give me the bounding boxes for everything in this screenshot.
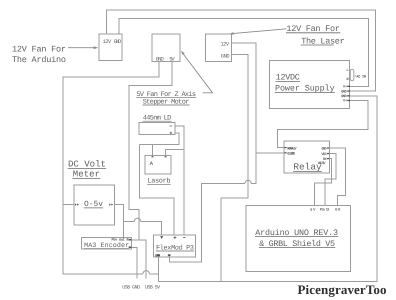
component label texts — [12, 24, 345, 65]
svg-text:Pin 12: Pin 12 — [320, 208, 330, 213]
leader arrow to fan3 (laser fan) — [234, 29, 286, 34]
svg-text:The Arduino: The Arduino — [12, 55, 66, 65]
laserb top pin nubs — [152, 156, 154, 157]
svg-text:GND: GND — [156, 56, 164, 62]
relay K1 box — [284, 141, 329, 173]
laser module Laserb box — [145, 156, 171, 175]
svg-text:GND: GND — [341, 89, 347, 94]
wire relay pin GND staircase to arduino D8 — [329, 148, 345, 205]
svg-text:L: L — [347, 68, 349, 73]
svg-text:A: A — [150, 160, 154, 167]
LD +- pin marks — [170, 126, 172, 134]
svg-text:VCC: VCC — [322, 152, 327, 157]
label 12VDC Power Supply — [275, 73, 335, 94]
svg-text:12V: 12V — [221, 41, 230, 47]
MA3 right edge pin nubs — [129, 239, 132, 241]
wire net fan2 GND to voltmeter left and bus2 (hop at 146) — [63, 62, 159, 274]
wire MA3 PWM pin to USB GND stub — [132, 247, 137, 278]
svg-text:CLOSED: CLOSED — [287, 151, 295, 156]
wire MA3 5V line to USB 5V stub — [132, 240, 146, 279]
label 5V Fan For Z Axis Stepper Motor — [136, 91, 196, 106]
wire hop arc over jog vertical — [134, 218, 140, 221]
power supply U1 box — [269, 60, 349, 108]
voltmeter 0-5v box — [74, 185, 114, 225]
svg-text:N: N — [347, 77, 349, 82]
label Arduino UNO REV.3 & GRBL Shield V5 — [255, 228, 338, 249]
svg-text:GND: GND — [114, 39, 121, 45]
wire net fan3 12V to relay/FlexMod M (with hop at 248) — [170, 43, 256, 262]
flexmod pin1 mark — [160, 236, 163, 239]
svg-text:NORMALLY: NORMALLY — [287, 147, 297, 152]
label USB GND / USB 5V — [122, 285, 160, 291]
voltmeter pin chevrons — [75, 203, 79, 205]
wire relay pin VCC staircase to arduino Pin12 — [325, 154, 336, 206]
relay right pin nubs — [327, 147, 329, 148]
svg-text:P5v out B: P5v out B — [112, 238, 129, 243]
arduino uno box — [246, 205, 351, 271]
svg-text:VCC 5V: VCC 5V — [318, 161, 326, 166]
laser diode LD box 445nm — [139, 122, 175, 134]
svg-text:5V: 5V — [169, 56, 175, 62]
svg-text:V+: V+ — [343, 99, 347, 104]
svg-text:D8: D8 — [335, 208, 340, 213]
wire net PSU pin3 GND bus right side and bottom bus1 — [158, 96, 376, 281]
wire voltmeter left pin tap — [63, 204, 74, 206]
PSU AC IN bracket — [350, 69, 356, 80]
psu pin nubs — [347, 86, 350, 87]
flexmod +- pin marks — [174, 236, 186, 239]
svg-text:5V: 5V — [310, 208, 316, 213]
wire net LD minus to Laserb right pin and FlexMod pin3 — [166, 126, 184, 235]
label DC Volt Meter — [68, 160, 106, 180]
svg-text:12V Fan For: 12V Fan For — [12, 44, 66, 54]
svg-text:PicengraverToo: PicengraverToo — [298, 282, 387, 297]
svg-text:GND: GND — [341, 94, 347, 99]
leader arrow to fan1 — [68, 29, 286, 93]
pin nubs — [75, 86, 350, 256]
wire voltmeter out to MA3 top pin and FlexMod pin1 (hop gap at 137.5) — [114, 205, 161, 238]
wire net 12V fan1 to PSU pin2 (outer top) — [107, 10, 376, 91]
svg-text:USB GND: USB GND — [122, 285, 140, 291]
wire net GND fan1 to PSU pin1 (inner top) — [119, 18, 368, 86]
wire relay CLOSED pin tap from 12V net — [256, 152, 284, 154]
wire hop arc over vertical 248 — [245, 180, 251, 183]
svg-text:GND: GND — [322, 147, 327, 152]
leader arrow to fan2 (z axis fan) — [183, 54, 212, 93]
svg-text:12V: 12V — [103, 39, 112, 45]
MA3 encoder box — [82, 238, 132, 249]
svg-text:V+: V+ — [343, 85, 347, 90]
svg-text:USB 5V: USB 5V — [145, 285, 160, 291]
FlexMod P3 box — [153, 235, 195, 257]
wire net LD plus to Laserb left pin and FlexMod pin2 — [139, 133, 179, 235]
fan box B3 12V Fan Laser — [206, 34, 232, 61]
svg-text:AC IN: AC IN — [356, 74, 366, 79]
wire FlexMod GND pin to bus1 — [157, 257, 159, 281]
relay left pin nubs — [284, 147, 286, 148]
wire net fan2 5V down to MA3 5V pin (jog) — [129, 62, 172, 240]
wire net fan3 GND down left of arduino to bus1 — [221, 55, 248, 282]
wire hop arc bus2 over USB5V vertical — [143, 271, 149, 274]
flexmod bottom pin nubs — [157, 254, 160, 256]
micro pin labels — [103, 39, 230, 63]
svg-text:M: M — [168, 254, 170, 259]
fan box B2 5V Fan Z Axis — [152, 34, 180, 62]
svg-text:GND: GND — [155, 254, 160, 259]
wire net PSU pin4 to relay NORMALLY pin — [278, 100, 368, 147]
wire relay pin IN staircase to arduino 5V — [314, 159, 331, 206]
fan box B1 12V Fan Arduino — [99, 34, 122, 61]
svg-text:GND: GND — [221, 53, 230, 59]
